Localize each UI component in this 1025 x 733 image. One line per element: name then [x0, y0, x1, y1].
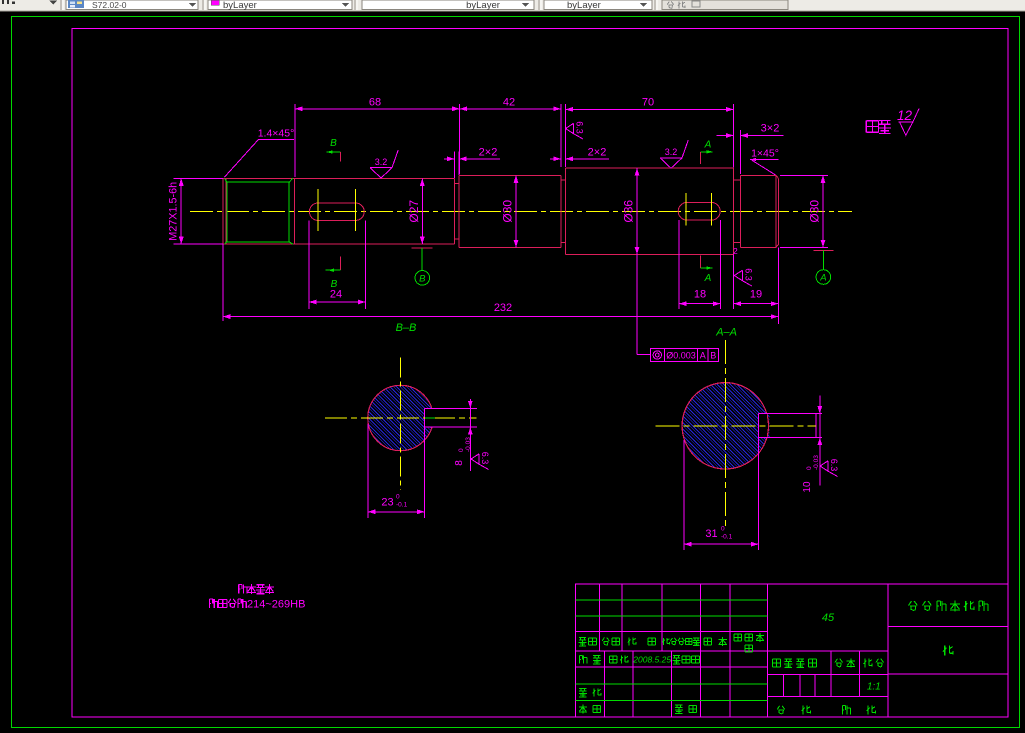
title row: biaoji chushu fenqu etc [579, 637, 586, 639]
svg-text:214~269HB: 214~269HB [247, 599, 305, 611]
dimension 18 keyway2 [678, 220, 680, 309]
svg-text:23: 23 [381, 497, 393, 509]
svg-text:B: B [330, 138, 337, 149]
groove 1 (2x2) [453, 178, 455, 244]
row: shenhe [579, 688, 586, 690]
dimension 2x2 second groove [550, 158, 561, 160]
svg-text:1×45°: 1×45° [751, 148, 779, 160]
dimension 19 [733, 255, 735, 310]
roughness 3.2 on phi27 [370, 150, 398, 178]
svg-text:byLayer: byLayer [466, 0, 500, 11]
dimension 23 0/-0.1 [367, 424, 369, 518]
svg-text:42: 42 [503, 97, 515, 109]
svg-text:0: 0 [721, 526, 725, 533]
svg-text:Ø0.003: Ø0.003 [666, 350, 696, 360]
svg-text:1.4×45°: 1.4×45° [258, 128, 295, 140]
diameter dim phi30 mid [515, 175, 517, 247]
roughness 6.3 at B-B keyway [471, 452, 490, 470]
part name: shaft [944, 646, 946, 656]
svg-text:B–B: B–B [396, 322, 417, 334]
svg-text:24: 24 [330, 289, 342, 301]
chamfer label 1x45 [750, 159, 778, 161]
shaft outline M27 thread section [222, 178, 224, 244]
svg-text:3.2: 3.2 [665, 147, 678, 157]
school name [909, 601, 912, 606]
svg-text:byLayer: byLayer [223, 0, 257, 11]
svg-text:M27X1.5-6h: M27X1.5-6h [168, 182, 180, 241]
svg-text:S72.02-0: S72.02-0 [92, 0, 127, 10]
svg-text:-0.03: -0.03 [465, 437, 472, 452]
groove 3 (3x2) [733, 168, 735, 254]
svg-text:A: A [819, 273, 826, 284]
B-B keyway slot [425, 407, 477, 409]
dimension 31 0/-0.1 [683, 440, 685, 550]
svg-text:-0.03: -0.03 [813, 455, 820, 470]
svg-text:6.3: 6.3 [829, 459, 839, 472]
svg-text:6.3: 6.3 [575, 121, 585, 134]
section mark B bottom [340, 256, 342, 270]
B-B centerlines [400, 358, 402, 491]
svg-text:45: 45 [822, 612, 835, 624]
dimension 3x2 groove [739, 130, 741, 174]
dimension 2x2 first groove [453, 152, 455, 179]
svg-text:2008.5.25: 2008.5.25 [632, 655, 671, 665]
svg-text:A: A [704, 273, 712, 284]
svg-text:-0.1: -0.1 [396, 502, 408, 509]
section B-B circle outline [368, 385, 433, 450]
phi30 right section [740, 174, 776, 176]
shaft centerline [190, 210, 852, 212]
green remnant line in keyway [425, 417, 435, 419]
diameter dim phi30 right [780, 174, 828, 176]
section A-A circle outline [682, 383, 768, 469]
dimension 70 [565, 104, 567, 167]
svg-text:18: 18 [694, 289, 706, 301]
svg-text:0: 0 [806, 466, 813, 470]
jieduanbiaoji zhongliang bili [772, 658, 780, 660]
svg-text:19: 19 [750, 289, 762, 301]
toolbar strip [0, 0, 1025, 11]
svg-text:68: 68 [369, 97, 381, 109]
svg-text:0: 0 [396, 494, 400, 501]
svg-text:232: 232 [494, 302, 512, 314]
roughness 6.3 at A-A keyway [820, 459, 839, 477]
diameter dim M27X1.5-6h [174, 177, 223, 179]
datum B symbol [412, 247, 433, 249]
svg-text:B: B [419, 274, 426, 285]
svg-text:A: A [704, 140, 712, 151]
svg-text:byLayer: byLayer [567, 0, 601, 11]
phi30 mid section [459, 174, 561, 176]
general roughness note top-right [866, 120, 878, 122]
diameter dim phi27 [421, 178, 423, 244]
phi36 section [566, 167, 734, 169]
gong zhang di zhang [777, 706, 779, 710]
dimension 24 keyway1 [308, 220, 310, 309]
keyway 2 centerlines [685, 193, 687, 226]
title block green lines [576, 600, 768, 701]
keyway 2 front view [678, 202, 720, 220]
svg-text:2×2: 2×2 [479, 147, 498, 159]
keyway 1 front view [309, 203, 364, 220]
svg-text:6.3: 6.3 [480, 452, 490, 465]
chamfer label 1.4x45 [259, 138, 294, 140]
svg-text:Ø27: Ø27 [407, 200, 421, 223]
svg-text:0: 0 [458, 448, 465, 452]
datum A symbol [814, 250, 834, 252]
groove 2 (2x2) [560, 175, 562, 247]
title block outer [576, 584, 1008, 717]
A-A centerlines [724, 340, 726, 526]
A-A keyway slot [759, 413, 823, 415]
svg-text:6.3: 6.3 [743, 268, 753, 281]
dimension 68 [294, 104, 296, 177]
roughness 3.2 on phi36 [660, 140, 688, 168]
dimension 8 0/-0.03 [469, 399, 471, 471]
section mark A top [700, 151, 712, 153]
svg-text:Ø30: Ø30 [501, 200, 515, 223]
row: sheji huizhi date biaozhunhua [578, 656, 580, 664]
thread minor diameter (green) [225, 178, 293, 244]
svg-text:12: 12 [897, 108, 913, 123]
row: gongyi / pizhun [582, 705, 584, 714]
diameter dim phi36 [636, 168, 638, 354]
roughness 6.3 at groove3 [734, 268, 753, 286]
dimension 42 [560, 104, 562, 167]
svg-text:A–A: A–A [715, 327, 737, 339]
svg-text:31: 31 [705, 528, 717, 540]
svg-text:Ø30: Ø30 [808, 200, 822, 223]
svg-text:A: A [700, 350, 706, 360]
section mark B top [327, 151, 341, 153]
svg-text:2: 2 [733, 246, 738, 256]
roughness 6.3 at groove2 [566, 121, 585, 139]
svg-text:2×2: 2×2 [588, 147, 607, 159]
technical requirements text [238, 585, 240, 594]
svg-text:Ø36: Ø36 [622, 200, 636, 223]
svg-text:-0.1: -0.1 [721, 534, 733, 541]
dimension 10 0/-0.03 [819, 396, 821, 486]
svg-text:B: B [710, 350, 716, 360]
svg-text:10: 10 [802, 481, 813, 493]
svg-text:70: 70 [642, 97, 654, 109]
svg-text:3.2: 3.2 [375, 157, 388, 167]
concentricity tolerance frame [637, 354, 650, 356]
svg-text:3×2: 3×2 [761, 123, 780, 135]
keyway 1 centerlines [317, 189, 319, 231]
section mark A bottom [699, 256, 701, 268]
svg-text:1:1: 1:1 [867, 682, 881, 693]
svg-text:8: 8 [454, 460, 465, 466]
dimension 232 overall [222, 244, 224, 321]
